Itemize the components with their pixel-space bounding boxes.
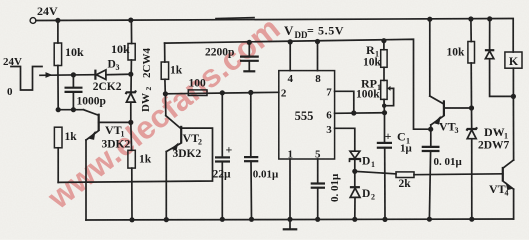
resistor R1 10k — [363, 38, 387, 80]
node junction D3 / zener rail — [128, 72, 133, 77]
capacitor 0.01u (pin2 node) — [244, 90, 279, 219]
zener DW2 2CW4 — [126, 48, 153, 123]
node junction VT1 base / zener rail — [128, 120, 133, 125]
diode D1 — [349, 151, 375, 171]
node junction relay/diode/VT4 collector — [511, 94, 516, 99]
wire pin 3 — [335, 128, 355, 151]
wire ground rail — [86, 219, 514, 220]
label VDD = 5.5V — [284, 23, 344, 40]
node input pulse annotation 24V/0 — [3, 56, 42, 98]
node junction VT3 emitter / VDD feed — [428, 127, 433, 132]
resistor 10k (right) — [447, 19, 475, 108]
wire pin2 node — [165, 92, 278, 94]
capacitor 0.01u (pin 5) — [311, 159, 341, 219]
diode relay freewheel — [485, 19, 514, 97]
zener DW1 2DW7 — [467, 108, 510, 219]
ground symbol — [283, 217, 298, 230]
wire pin 6 node — [335, 112, 385, 115]
diode D2 — [350, 171, 375, 219]
resistor 2k with base wire to VT4 — [355, 171, 503, 190]
capacitor 2200p with ground stub — [205, 40, 259, 72]
transistor VT4 — [489, 96, 514, 219]
node junction top rail / 10k-DW2 rail — [128, 18, 133, 23]
transistor VT2 3DK2 — [165, 94, 202, 220]
wire pin 8 to VDD — [317, 42, 319, 71]
resistor 1k (on zener rail) — [128, 122, 152, 219]
resistor 100 — [188, 78, 207, 96]
op-amp U1 555 timer box — [279, 71, 335, 161]
transistor VT1 3DK2 — [86, 114, 131, 220]
capacitor C1 1u — [377, 113, 413, 220]
node junction 1k / VT2 collector / pin2 wire — [163, 91, 168, 96]
capacitor 0.01u (VDD decoupling) — [422, 129, 463, 219]
resistor 1k (VDD to pin2) — [161, 43, 183, 94]
node junction top rail / VT3 collector — [427, 17, 432, 22]
capacitor 1000p — [65, 72, 106, 109]
resistor 1k (left, VT1 collector load) — [54, 127, 77, 182]
wire pin 7 — [335, 91, 354, 113]
resistor 10k (second, on zener rail) — [111, 20, 135, 92]
resistor 10k (left) — [54, 20, 84, 109]
node junction 1000p / node wire — [71, 107, 76, 112]
wire pin 4 to VDD — [289, 42, 291, 71]
relay K — [505, 52, 522, 96]
node junctions on ground rail — [129, 217, 474, 223]
node junction top rail / right 10k — [468, 16, 473, 21]
node junction top rail / left 10k — [55, 18, 60, 23]
wire VT1 collector node — [58, 110, 98, 116]
node +24V terminal — [30, 4, 58, 23]
wire VDD rail — [165, 39, 431, 129]
node junction VT3 base / 10k / DW1 — [469, 105, 474, 110]
capacitor 22u electrolytic — [213, 90, 233, 219]
transistor VT3 — [430, 19, 472, 135]
wire emitter bus to VT2 base — [58, 128, 212, 182]
wire pin 1 to ground — [289, 159, 291, 219]
potentiometer RP1 100k — [356, 77, 394, 113]
node junction D1/D2/2k — [352, 169, 357, 174]
node junction top rail / relay diode — [487, 16, 492, 21]
wire input signal with arrow — [40, 72, 94, 78]
diode D3 2CK2 — [93, 59, 131, 94]
node junction left column / node wire — [56, 107, 61, 112]
wire +24V top rail — [36, 19, 513, 53]
